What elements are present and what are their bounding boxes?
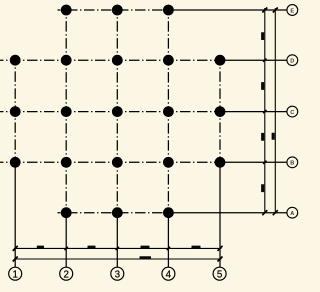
svg-text:E: E xyxy=(290,8,294,14)
column C4 xyxy=(163,106,174,117)
column E4 xyxy=(163,5,174,16)
tick bottom L1 axis5 xyxy=(218,246,223,251)
column D1 xyxy=(10,55,21,66)
column D3 xyxy=(112,55,123,66)
dimension values right (rotated ticks of text) xyxy=(261,32,275,192)
bubble axis 4 xyxy=(162,267,175,280)
svg-text:1: 1 xyxy=(12,269,17,280)
bubble axis 5 xyxy=(213,267,226,280)
tick right L1 row E xyxy=(262,8,267,13)
tick right L1 row C xyxy=(263,110,266,113)
column A4 xyxy=(163,207,174,218)
svg-text:5: 5 xyxy=(217,269,223,280)
bottom dimension line inner xyxy=(14,247,222,249)
grid axis B solid to leader xyxy=(220,161,287,163)
svg-text:B: B xyxy=(290,161,294,167)
dimension values bottom xyxy=(37,246,201,260)
dim text 3-4 xyxy=(141,246,150,249)
bubble axis 1 xyxy=(9,267,22,280)
grid axis C dash-dot xyxy=(0,111,220,113)
column E3 xyxy=(112,5,123,16)
columns (filled dots) xyxy=(10,5,226,219)
column A2 xyxy=(61,207,72,218)
axis bubbles right xyxy=(287,5,298,219)
tick bottom L1 axis4 xyxy=(167,247,170,250)
tick bottom L2 axis5 xyxy=(218,257,223,262)
grid axis C solid to leader xyxy=(220,111,287,113)
bottom dimension line outer xyxy=(14,258,222,260)
dim text 1-2 xyxy=(37,246,44,249)
grid axis E (top) dash-dot xyxy=(58,9,171,11)
column B1 xyxy=(10,157,21,168)
grid axis A dash-dot xyxy=(58,212,174,214)
grid axis B dash-dot xyxy=(0,161,220,163)
bubble row D xyxy=(287,55,298,66)
axis bubbles bottom xyxy=(9,267,226,280)
dim text 4-5 xyxy=(192,246,201,249)
dim text D-C xyxy=(261,82,264,90)
right dimension line inner xyxy=(264,8,266,214)
column D5 xyxy=(215,55,226,66)
column A3 xyxy=(112,207,123,218)
grid axis 5 dash-dot xyxy=(219,55,221,168)
svg-text:C: C xyxy=(290,110,294,116)
bubble row E xyxy=(287,5,298,16)
svg-text:A: A xyxy=(290,211,294,217)
column C3 xyxy=(112,106,123,117)
grid axis 3 dash-dot xyxy=(116,5,118,218)
bubble row C xyxy=(287,106,298,117)
dimension ticks (45 deg slashes) xyxy=(13,8,278,262)
tick right L2 row E xyxy=(273,8,278,13)
bubble row B xyxy=(287,157,298,168)
grid axis A solid to leader xyxy=(173,212,287,214)
column B2 xyxy=(61,157,72,168)
grid axis 2 dash-dot xyxy=(65,5,67,218)
grid axis 1 solid to bubble xyxy=(14,167,16,267)
dim text overall right xyxy=(272,133,275,140)
grid axis E solid to leader xyxy=(170,9,287,11)
dim text E-D xyxy=(261,32,264,40)
column C5 xyxy=(215,106,226,117)
column B3 xyxy=(112,157,123,168)
column B4 xyxy=(163,157,174,168)
svg-text:2: 2 xyxy=(63,269,68,280)
tick bottom L1 axis2 xyxy=(65,247,68,250)
tick bottom L2 axis1 xyxy=(13,257,18,262)
grid axis 4 solid to bubble xyxy=(167,218,169,267)
grid axis 2 solid to bubble xyxy=(65,218,67,267)
dim text overall bottom xyxy=(140,256,152,259)
dim text B-A xyxy=(261,184,264,192)
grid axis D dash-dot xyxy=(0,59,220,61)
column D2 xyxy=(61,55,72,66)
svg-text:3: 3 xyxy=(115,269,121,280)
tick right L2 row A xyxy=(273,210,278,215)
tick bottom L1 axis1 xyxy=(13,246,18,251)
column C2 xyxy=(61,106,72,117)
right dimension line outer xyxy=(274,8,276,214)
svg-text:4: 4 xyxy=(166,269,172,280)
grid axis 4 dash-dot xyxy=(167,5,169,218)
dim text C-B xyxy=(261,133,264,141)
column B5 xyxy=(215,157,226,168)
bubble axis 2 xyxy=(60,267,73,280)
dim text 2-3 xyxy=(88,246,96,249)
tick right L1 row D xyxy=(263,59,266,62)
grid axis 5 solid to bubble xyxy=(219,168,221,268)
column E2 xyxy=(61,5,72,16)
grid axis 3 solid to bubble xyxy=(116,218,118,267)
column D4 xyxy=(163,55,174,66)
tick right L1 row B xyxy=(263,161,266,164)
column C1 xyxy=(10,106,21,117)
svg-text:D: D xyxy=(290,59,294,65)
tick right L1 row A xyxy=(262,210,267,215)
bubble axis 3 xyxy=(111,267,124,280)
grid axis 1 dash-dot xyxy=(14,55,16,167)
tick bottom L1 axis3 xyxy=(116,247,119,250)
bubble row A xyxy=(287,207,298,218)
grid axis D solid to leader xyxy=(220,59,287,61)
